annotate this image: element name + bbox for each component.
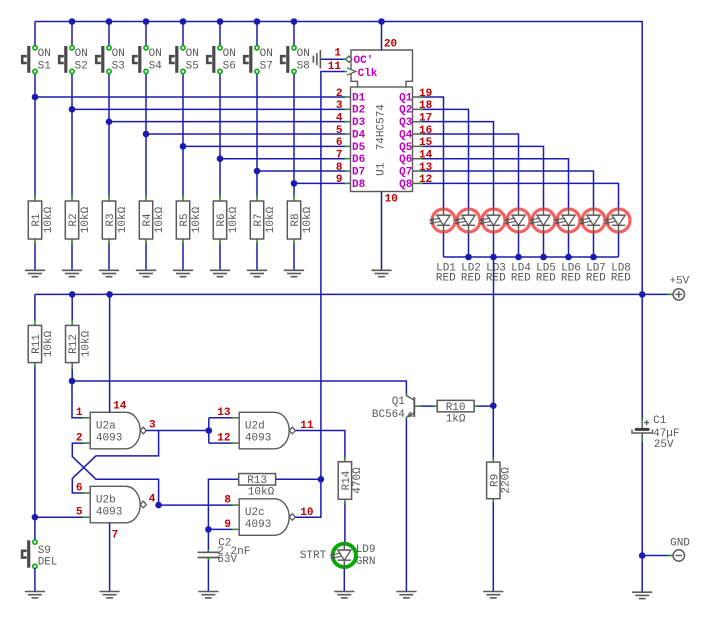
pushbutton S7 — [244, 46, 259, 74]
junction S1/D1 node — [32, 94, 39, 101]
svg-text:D7: D7 — [352, 166, 365, 178]
junction top rail / S8 — [291, 18, 298, 25]
svg-text:S9: S9 — [38, 545, 51, 557]
pin 1 diamond — [346, 56, 352, 62]
wire U2a pin2 from U2b output — [72, 443, 158, 505]
wire node to U1 D8 — [294, 182, 345, 184]
wire U2b out to U2c pin8 — [159, 504, 232, 506]
wire LD5 cathode — [543, 234, 545, 258]
svg-text:15: 15 — [419, 137, 433, 149]
wire LD7 cathode — [593, 234, 595, 258]
svg-text:14: 14 — [113, 401, 127, 413]
svg-text:63V: 63V — [217, 554, 237, 566]
pushbutton S6 — [207, 46, 222, 74]
svg-text:1: 1 — [334, 47, 341, 59]
ground LD9 — [334, 591, 354, 593]
wire top rail to S8 — [293, 22, 295, 46]
wire GND to ground — [641, 556, 643, 593]
svg-text:12: 12 — [419, 174, 432, 186]
svg-text:470Ω: 470Ω — [352, 467, 364, 494]
svg-text:Q3: Q3 — [399, 117, 413, 129]
LED LD1 — [430, 208, 455, 234]
svg-text:ON: ON — [260, 48, 273, 60]
svg-text:D4: D4 — [352, 129, 366, 141]
wire U1 Q7 to LD7 — [420, 170, 422, 172]
svg-text:4: 4 — [336, 112, 343, 124]
junction S6/D6 node — [217, 155, 224, 162]
wire U2a pin14 to +5V — [109, 294, 111, 412]
junction S8/D8 node — [291, 180, 298, 187]
LED LD5 — [530, 208, 555, 234]
svg-text:LD9: LD9 — [356, 544, 376, 556]
ground U2b pin 7 — [100, 591, 120, 593]
wire R4 to ground — [145, 242, 147, 244]
svg-text:2: 2 — [336, 88, 343, 100]
svg-text:16: 16 — [419, 125, 432, 137]
svg-text:ON: ON — [223, 48, 236, 60]
junction R12/Q1 collector/U2a pin1 — [69, 378, 76, 385]
svg-text:U2c: U2c — [245, 507, 265, 519]
wire LD9 to ground — [343, 569, 345, 592]
svg-text:D8: D8 — [352, 179, 366, 191]
svg-text:D6: D6 — [352, 154, 365, 166]
wire R2 to ground — [71, 242, 73, 244]
wire C2 to ground — [207, 558, 209, 560]
+5V symbol — [673, 289, 684, 300]
svg-text:RED: RED — [611, 273, 631, 285]
pushbutton S2 — [59, 46, 74, 74]
wire U2b pin5 — [35, 516, 83, 518]
svg-text:Q1: Q1 — [392, 396, 406, 408]
LED LD3 — [480, 208, 505, 234]
wire R7 to ground — [256, 242, 258, 244]
svg-text:Q5: Q5 — [399, 142, 413, 154]
ground R8 — [284, 269, 304, 271]
wire U1 Q4 to LD4 — [420, 133, 422, 135]
svg-text:RED: RED — [536, 273, 556, 285]
svg-text:4093: 4093 — [96, 507, 122, 519]
wire node to U1 D1 — [35, 96, 345, 98]
wire R9 to ground — [492, 501, 494, 503]
svg-text:S4: S4 — [149, 61, 163, 73]
junction U2b output node — [155, 502, 162, 509]
svg-text:74HC574: 74HC574 — [376, 104, 388, 151]
svg-text:Q8: Q8 — [399, 179, 413, 191]
svg-text:GRN: GRN — [356, 556, 376, 568]
wire S4 to R4 and D4 — [145, 74, 147, 196]
resistor R10 — [437, 400, 474, 412]
svg-text:ON: ON — [112, 48, 125, 60]
svg-text:10kΩ: 10kΩ — [80, 330, 92, 357]
svg-text:S8: S8 — [297, 61, 310, 73]
svg-text:10kΩ: 10kΩ — [191, 206, 203, 233]
op-amp U2d 4093 — [239, 412, 295, 449]
resistor R13 — [239, 474, 276, 486]
pushbutton S4 — [133, 46, 148, 74]
wire S1 to R1 and D1 — [34, 74, 36, 196]
wire S7 to R7 and D7 — [256, 74, 258, 196]
wire LD6 cathode — [568, 234, 570, 258]
svg-text:10kΩ: 10kΩ — [228, 206, 240, 233]
junction LED rail — [465, 254, 472, 261]
svg-text:Q2: Q2 — [399, 105, 412, 117]
ground C2 — [198, 591, 218, 593]
wire top rail to S5 — [182, 22, 184, 46]
svg-text:10kΩ: 10kΩ — [43, 206, 55, 233]
wire node to U1 D6 — [220, 158, 345, 160]
svg-text:10: 10 — [385, 194, 398, 206]
ground bottom right — [632, 591, 652, 593]
svg-text:7: 7 — [112, 530, 119, 542]
wire GND stub — [642, 555, 668, 557]
svg-text:R5: R5 — [179, 213, 191, 226]
wire top rail to S2 — [71, 22, 73, 46]
svg-text:C1: C1 — [653, 415, 667, 427]
svg-text:ON: ON — [186, 48, 199, 60]
resistor R3 — [102, 201, 115, 239]
pushbutton S1 — [22, 46, 37, 74]
transistor Q1 BC564 — [413, 397, 415, 417]
svg-text:9: 9 — [336, 174, 343, 186]
wire LD8 cathode — [618, 234, 620, 258]
svg-text:4093: 4093 — [245, 433, 271, 445]
LED LD8 — [605, 208, 630, 234]
wire Q1 base to R10 — [421, 405, 433, 407]
resistor R1 — [28, 201, 41, 239]
svg-text:STRT: STRT — [300, 550, 327, 562]
svg-text:8: 8 — [336, 162, 343, 174]
ground R4 — [136, 269, 156, 271]
wire R13 right to Clk node — [276, 478, 321, 480]
wire +5V to C1 — [641, 294, 643, 418]
wire U1 Q3 to LD3 — [420, 121, 422, 123]
junction top rail / S7 — [254, 18, 261, 25]
wire node to U1 D3 — [109, 121, 345, 123]
resistor R12 — [66, 325, 79, 362]
LED LD9 — [331, 542, 356, 568]
wire LD1 cathode — [443, 234, 445, 258]
junction S4/D4 node — [143, 131, 150, 138]
svg-text:10kΩ: 10kΩ — [248, 487, 275, 499]
wire OC' to ground — [320, 58, 343, 60]
junction top rail / S3 — [106, 18, 113, 25]
ground R1 — [25, 269, 45, 271]
svg-text:R4: R4 — [142, 213, 154, 227]
pushbutton S8 — [281, 46, 296, 74]
wire U1 pin 20 to top rail — [381, 22, 383, 51]
wire S8 to R8 and D8 — [293, 74, 295, 196]
svg-text:RED: RED — [511, 273, 531, 285]
wire R3 to ground — [108, 242, 110, 244]
svg-text:220Ω: 220Ω — [500, 467, 512, 494]
svg-text:R2: R2 — [68, 213, 80, 226]
svg-text:RED: RED — [561, 273, 581, 285]
wire Clk net — [345, 71, 347, 73]
svg-text:S1: S1 — [38, 61, 52, 73]
wire top rail to S4 — [145, 22, 147, 46]
svg-text:S6: S6 — [223, 61, 236, 73]
wire U1 Q1 to LD1 — [420, 96, 422, 98]
svg-text:18: 18 — [419, 100, 433, 112]
svg-text:20: 20 — [384, 38, 397, 50]
junction S7/D7 node — [254, 168, 261, 175]
wire R10 to node — [476, 405, 478, 407]
svg-text:RED: RED — [436, 273, 456, 285]
ground R7 — [247, 269, 267, 271]
svg-text:ON: ON — [38, 48, 51, 60]
svg-text:R7: R7 — [253, 213, 265, 226]
svg-text:S7: S7 — [260, 61, 273, 73]
pushbutton S9 — [22, 540, 37, 568]
svg-text:R13: R13 — [247, 475, 267, 487]
ground R6 — [210, 269, 230, 271]
junction top rail / S4 — [143, 18, 150, 25]
LED LD4 — [505, 208, 530, 234]
svg-text:3: 3 — [149, 419, 156, 431]
op-amp U2c 4093 — [239, 499, 295, 536]
wire S6 to R6 and D6 — [219, 74, 221, 196]
wire U1 pin 10 to ground — [381, 192, 383, 271]
svg-text:D2: D2 — [352, 105, 365, 117]
wire node to U1 D7 — [257, 170, 345, 172]
junction top rail / S5 — [180, 18, 187, 25]
junction LED rail — [515, 254, 522, 261]
junction C2/U2c pin9 — [205, 526, 212, 533]
GND symbol — [673, 550, 684, 561]
LED LD6 — [555, 208, 580, 234]
junction top rail / S2 — [69, 18, 76, 25]
capacitor C2 — [198, 551, 220, 553]
svg-text:BC564: BC564 — [372, 409, 405, 421]
junction U2a out node — [206, 427, 213, 434]
svg-text:+5V: +5V — [669, 276, 689, 288]
svg-text:Q4: Q4 — [399, 129, 413, 141]
svg-text:R14: R14 — [341, 470, 353, 490]
svg-text:OC': OC' — [354, 55, 374, 67]
svg-text:1: 1 — [76, 407, 83, 419]
wire S3 to R3 and D3 — [108, 74, 110, 196]
junction S5/D5 node — [180, 143, 187, 150]
svg-text:3: 3 — [336, 100, 343, 112]
svg-text:D5: D5 — [352, 142, 366, 154]
svg-text:Clk: Clk — [358, 68, 378, 80]
wire U1 Q2 to LD2 — [420, 108, 422, 110]
wire S5 to R5 and D5 — [182, 74, 184, 196]
pushbutton S3 — [96, 46, 111, 74]
svg-text:R6: R6 — [216, 213, 228, 226]
junction top rail / U1 pin 20 — [378, 18, 385, 25]
wire S9 to ground — [34, 568, 36, 591]
resistor R6 — [213, 201, 226, 239]
wire LED rail to R9/R10 node — [493, 257, 495, 406]
wire top rail to S1 — [34, 22, 36, 46]
ground R2 — [62, 269, 82, 271]
svg-text:R1: R1 — [31, 213, 43, 227]
junction S3/D3 node — [106, 118, 113, 125]
wire U2b pin6 from U2a output — [72, 431, 158, 493]
pin 11 clock wedge — [347, 68, 356, 75]
svg-text:6: 6 — [336, 137, 343, 149]
junction R10/R9/LED rail — [490, 402, 497, 409]
ground U1 pin 10 — [371, 269, 391, 271]
junction LED rail — [540, 254, 547, 261]
svg-text:4093: 4093 — [245, 519, 271, 531]
svg-text:S3: S3 — [112, 61, 125, 73]
LED LD2 — [455, 208, 480, 234]
svg-text:S2: S2 — [75, 61, 88, 73]
op-amp U1 74HC574 outline — [351, 50, 413, 87]
ground R9 — [483, 591, 503, 593]
svg-text:RED: RED — [461, 273, 481, 285]
junction S2/D2 node — [69, 106, 76, 113]
svg-text:ON: ON — [75, 48, 88, 60]
resistor R8 — [287, 201, 300, 239]
svg-text:Q6: Q6 — [399, 154, 412, 166]
svg-text:10kΩ: 10kΩ — [154, 206, 166, 233]
ground Q1 — [396, 591, 416, 593]
pushbutton S5 — [170, 46, 185, 74]
resistor R4 — [139, 201, 152, 239]
resistor R5 — [176, 201, 189, 239]
svg-text:10kΩ: 10kΩ — [117, 206, 129, 233]
wire node to U1 D5 — [183, 145, 345, 147]
svg-text:17: 17 — [419, 112, 432, 124]
ground R5 — [173, 269, 193, 271]
svg-text:GND: GND — [670, 537, 690, 549]
junction +5V/U2a pin14 — [106, 291, 113, 298]
resistor R2 — [65, 201, 78, 239]
wire Q1 emitter to ground — [405, 417, 407, 419]
wire LED cathode rail — [444, 256, 619, 258]
svg-text:4093: 4093 — [96, 433, 122, 445]
wire U2c pin9 — [208, 528, 231, 530]
resistor R14 — [338, 462, 351, 500]
junction LED rail — [565, 254, 572, 261]
svg-text:U1: U1 — [376, 162, 388, 176]
wire R13 left to C2 node — [208, 479, 238, 529]
junction LED rail — [490, 254, 497, 261]
junction top rail / S6 — [217, 18, 224, 25]
svg-text:ON: ON — [149, 48, 162, 60]
wire node to U1 D2 — [72, 108, 345, 110]
wire C1 to GND rail — [641, 439, 643, 441]
svg-text:4: 4 — [149, 494, 156, 506]
ground at OC' — [319, 50, 321, 69]
capacitor C1 — [635, 428, 650, 431]
svg-text:R8: R8 — [290, 213, 302, 226]
wire U2a out to U2d inputs — [208, 418, 210, 443]
wire R12 node to Q1 collector — [72, 381, 406, 394]
junction Clk/R13 — [318, 476, 325, 483]
svg-text:R12: R12 — [68, 334, 80, 354]
resistor R9 — [487, 462, 500, 499]
svg-text:U2d: U2d — [245, 421, 265, 433]
ground R3 — [99, 269, 119, 271]
svg-text:DEL: DEL — [38, 557, 58, 569]
wire U1 Q6 to LD6 — [420, 158, 422, 160]
op-amp U2b 4093 — [90, 486, 146, 523]
LED LD7 — [580, 208, 605, 234]
wire R14 to LD9 — [344, 502, 346, 504]
wire U1 Q8 to LD8 — [420, 182, 422, 184]
svg-text:5: 5 — [336, 125, 343, 137]
svg-text:19: 19 — [419, 88, 432, 100]
wire +5V to R11 — [34, 294, 36, 320]
svg-text:R10: R10 — [446, 402, 466, 414]
svg-text:Q1: Q1 — [399, 92, 413, 104]
svg-text:S5: S5 — [186, 61, 199, 73]
svg-text:14: 14 — [419, 150, 433, 162]
wire top rail to S3 — [108, 22, 110, 46]
wire R6 to ground — [219, 242, 221, 244]
wire U2b pin7 to ground — [109, 523, 111, 592]
wire node to U1 D4 — [146, 133, 345, 135]
wire LD4 cathode — [518, 234, 520, 258]
resistor R11 — [28, 325, 41, 362]
wire +5V rail — [35, 293, 642, 295]
svg-text:10kΩ: 10kΩ — [265, 206, 277, 233]
svg-text:D3: D3 — [352, 117, 366, 129]
wire top rail to S6 — [219, 22, 221, 46]
svg-text:10kΩ: 10kΩ — [43, 330, 55, 357]
wire U2c out to Clk node — [296, 479, 321, 517]
wire S2 to R2 and D2 — [71, 74, 73, 196]
wire +5V to R12 — [71, 294, 73, 320]
svg-text:13: 13 — [419, 162, 433, 174]
wire node to S9 — [34, 517, 36, 540]
wire R8 to ground — [293, 242, 295, 244]
wire +5V stub — [642, 293, 668, 295]
svg-text:10kΩ: 10kΩ — [302, 206, 314, 233]
svg-text:25V: 25V — [654, 439, 674, 451]
svg-text:U2b: U2b — [96, 495, 116, 507]
svg-text:Q7: Q7 — [399, 166, 412, 178]
wire top rail to S7 — [256, 22, 258, 46]
svg-text:D1: D1 — [352, 92, 366, 104]
wire C2 node to C2 — [207, 529, 209, 549]
ground S9 — [25, 591, 45, 593]
wire R11 to S9/U2b pin5 node — [34, 365, 36, 367]
wire LD2 cathode — [468, 234, 470, 258]
wire LD3 cathode — [493, 234, 495, 258]
wire R12 to node — [71, 367, 73, 369]
wire U1 Q5 to LD5 — [420, 145, 422, 147]
junction +5V/R12 — [69, 291, 76, 298]
wire R12 node to U2a pin 1 — [72, 381, 83, 418]
svg-text:ON: ON — [297, 48, 310, 60]
svg-text:R11: R11 — [31, 334, 43, 354]
svg-text:7: 7 — [336, 150, 343, 162]
svg-text:10kΩ: 10kΩ — [80, 206, 92, 233]
junction GND rail — [639, 552, 646, 559]
wire R5 to ground — [182, 242, 184, 244]
svg-text:RED: RED — [486, 273, 506, 285]
wire U2d out to R14 — [296, 431, 345, 457]
wire +5V top rail — [35, 22, 642, 295]
junction +5V right — [639, 291, 646, 298]
wire R1 to ground — [34, 242, 36, 244]
svg-text:U2a: U2a — [96, 421, 116, 433]
junction R11/S9/U2b pin5 — [32, 514, 39, 521]
wire node to R9 — [492, 406, 494, 458]
resistor R7 — [250, 201, 263, 239]
junction LED rail — [590, 254, 597, 261]
svg-text:1kΩ: 1kΩ — [446, 413, 466, 425]
svg-text:R3: R3 — [105, 213, 117, 226]
svg-text:RED: RED — [586, 273, 606, 285]
op-amp U2a 4093 — [90, 412, 146, 449]
